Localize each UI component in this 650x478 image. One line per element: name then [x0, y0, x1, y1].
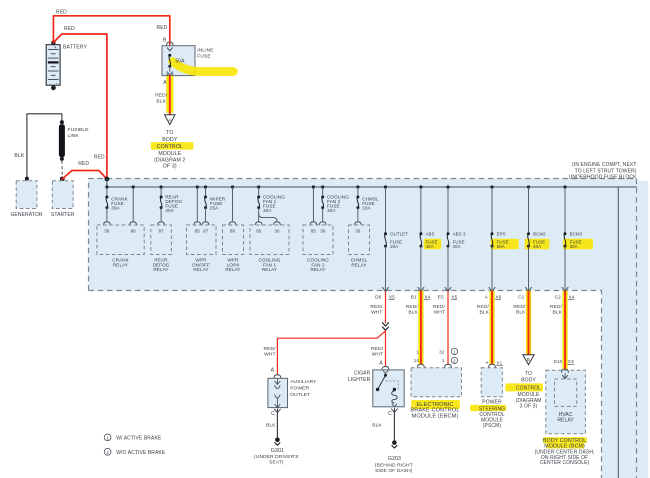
- svg-text:85: 85: [256, 229, 261, 234]
- svg-text:1: 1: [442, 358, 445, 363]
- svg-text:RELAY: RELAY: [557, 417, 574, 423]
- svg-text:WHT: WHT: [264, 352, 275, 358]
- svg-text:1: 1: [416, 349, 419, 354]
- svg-text:2: 2: [453, 358, 456, 363]
- svg-text:SEAT): SEAT): [269, 460, 284, 466]
- svg-text:85: 85: [311, 229, 316, 234]
- svg-text:C: C: [388, 411, 392, 417]
- svg-text:87: 87: [203, 229, 208, 234]
- svg-text:X4: X4: [424, 294, 430, 299]
- svg-text:30: 30: [275, 229, 280, 234]
- svg-text:RED/: RED/: [477, 304, 490, 310]
- svg-text:A: A: [271, 368, 275, 374]
- svg-text:GENERATOR: GENERATOR: [10, 212, 42, 218]
- svg-text:CENTER CONSOLE): CENTER CONSOLE): [540, 460, 590, 466]
- svg-text:D6: D6: [375, 294, 381, 299]
- svg-text:30: 30: [355, 229, 360, 234]
- svg-text:B: B: [527, 357, 530, 362]
- svg-text:WHT: WHT: [372, 352, 383, 358]
- svg-text:BLK: BLK: [552, 309, 562, 315]
- svg-text:87: 87: [159, 229, 164, 234]
- svg-text:30A: 30A: [111, 206, 120, 211]
- svg-text:BCM3: BCM3: [570, 232, 583, 237]
- svg-text:W/ ACTIVE BRAKE: W/ ACTIVE BRAKE: [116, 436, 162, 442]
- svg-text:FUSE: FUSE: [197, 54, 211, 60]
- svg-text:3 OF 3): 3 OF 3): [520, 404, 538, 410]
- svg-text:RELAY: RELAY: [310, 267, 325, 272]
- svg-text:RED: RED: [94, 154, 105, 160]
- svg-text:RELAY: RELAY: [262, 267, 277, 272]
- svg-text:30A: 30A: [570, 244, 578, 249]
- svg-text:RED/: RED/: [513, 304, 526, 310]
- svg-text:OF 3): OF 3): [163, 163, 177, 169]
- svg-text:LINK: LINK: [68, 133, 80, 139]
- svg-text:86: 86: [230, 229, 235, 234]
- svg-text:+: +: [54, 46, 57, 51]
- svg-text:WHT: WHT: [371, 309, 382, 315]
- svg-text:UNDERHOOD FUSE BLOCK: UNDERHOOD FUSE BLOCK: [569, 174, 637, 180]
- svg-text:A: A: [379, 360, 383, 366]
- svg-text:AUXILIARY: AUXILIARY: [290, 379, 317, 385]
- svg-text:OUTLET: OUTLET: [290, 392, 310, 398]
- svg-text:(BEHIND RIGHT: (BEHIND RIGHT: [375, 462, 413, 468]
- svg-text:CIGAR: CIGAR: [354, 370, 371, 376]
- svg-text:TO: TO: [166, 130, 173, 136]
- svg-text:X5: X5: [451, 294, 457, 299]
- svg-text:POWER: POWER: [290, 386, 309, 392]
- svg-text:-: -: [56, 80, 58, 86]
- svg-text:(UNDER DRIVER'S: (UNDER DRIVER'S: [254, 454, 299, 460]
- svg-text:G301: G301: [271, 448, 284, 454]
- svg-text:30A: 30A: [327, 208, 336, 213]
- svg-text:14: 14: [414, 358, 420, 363]
- svg-text:OUTLET: OUTLET: [390, 232, 408, 237]
- svg-text:30: 30: [104, 229, 109, 234]
- svg-text:RELAY: RELAY: [351, 262, 366, 267]
- svg-text:RED: RED: [157, 25, 168, 31]
- svg-text:C: C: [271, 411, 275, 417]
- svg-text:BLK: BLK: [408, 309, 418, 315]
- svg-text:30: 30: [320, 229, 325, 234]
- svg-text:BLK: BLK: [156, 99, 166, 105]
- svg-text:RED/: RED/: [264, 346, 277, 352]
- svg-text:10A: 10A: [362, 206, 371, 211]
- svg-text:B: B: [163, 37, 167, 43]
- svg-text:BLK: BLK: [479, 309, 489, 315]
- svg-text:BODY: BODY: [521, 377, 536, 383]
- svg-text:X5: X5: [389, 294, 395, 299]
- svg-text:BLK: BLK: [372, 423, 382, 429]
- svg-text:40A: 40A: [426, 244, 434, 249]
- svg-text:40A: 40A: [165, 208, 174, 213]
- svg-text:FUSIBLE: FUSIBLE: [68, 127, 90, 133]
- svg-text:RED/: RED/: [406, 304, 419, 310]
- svg-text:E5: E5: [438, 294, 444, 299]
- svg-text:RELAY: RELAY: [193, 267, 208, 272]
- svg-text:(PSCM): (PSCM): [483, 423, 502, 429]
- svg-text:50A: 50A: [175, 59, 185, 65]
- svg-text:WHT: WHT: [434, 309, 445, 315]
- svg-text:CONTROL: CONTROL: [516, 385, 541, 391]
- svg-text:85: 85: [195, 229, 200, 234]
- svg-text:40A: 40A: [533, 244, 541, 249]
- svg-text:X4: X4: [568, 294, 574, 299]
- svg-text:25A: 25A: [210, 206, 219, 211]
- svg-text:BLK: BLK: [14, 153, 24, 159]
- svg-text:MODULE: MODULE: [158, 151, 181, 157]
- svg-text:RED/: RED/: [155, 93, 168, 99]
- svg-text:CONTROL: CONTROL: [157, 144, 183, 150]
- svg-text:20A: 20A: [390, 244, 398, 249]
- svg-text:32: 32: [439, 349, 445, 354]
- svg-text:TO: TO: [525, 371, 532, 377]
- svg-text:BATTERY: BATTERY: [63, 44, 88, 50]
- svg-text:ABS 3: ABS 3: [453, 232, 466, 237]
- svg-text:30A: 30A: [263, 208, 272, 213]
- svg-text:G203: G203: [388, 456, 401, 462]
- svg-text:RELAY: RELAY: [225, 267, 240, 272]
- svg-text:86: 86: [131, 229, 136, 234]
- svg-text:POWER: POWER: [482, 399, 502, 405]
- svg-text:RED/: RED/: [433, 304, 446, 310]
- svg-text:1: 1: [453, 349, 456, 354]
- svg-text:RED/: RED/: [550, 304, 563, 310]
- svg-text:B1: B1: [411, 294, 417, 299]
- svg-text:X3: X3: [568, 359, 574, 364]
- svg-text:MODULE (EBCM): MODULE (EBCM): [412, 413, 459, 419]
- svg-text:(IN ENGINE COMPT, NEXT: (IN ENGINE COMPT, NEXT: [572, 162, 636, 168]
- svg-text:RED: RED: [56, 10, 67, 16]
- svg-text:INLINE: INLINE: [197, 48, 214, 54]
- svg-text:20A: 20A: [453, 244, 461, 249]
- svg-text:D10: D10: [553, 359, 562, 364]
- svg-text:EPS: EPS: [497, 232, 506, 237]
- svg-text:RED: RED: [64, 26, 75, 32]
- svg-text:RELAY: RELAY: [153, 267, 168, 272]
- svg-text:STARTER: STARTER: [51, 212, 75, 218]
- svg-text:+: +: [485, 360, 488, 366]
- svg-text:X1: X1: [496, 360, 502, 365]
- svg-text:LIGHTER: LIGHTER: [348, 377, 371, 383]
- svg-text:BLK: BLK: [516, 309, 526, 315]
- svg-text:RED/: RED/: [371, 346, 384, 352]
- svg-text:RELAY: RELAY: [113, 262, 128, 267]
- svg-text:RED/: RED/: [370, 304, 383, 310]
- svg-text:W/O ACTIVE BRAKE: W/O ACTIVE BRAKE: [116, 450, 166, 456]
- svg-text:60A: 60A: [497, 244, 505, 249]
- svg-text:BCM2: BCM2: [533, 232, 546, 237]
- svg-text:C1: C1: [518, 294, 524, 299]
- svg-text:SIDE OF DASH): SIDE OF DASH): [375, 468, 413, 474]
- svg-text:C2: C2: [555, 294, 561, 299]
- svg-text:ABS: ABS: [426, 232, 435, 237]
- svg-text:BLK: BLK: [266, 423, 276, 429]
- svg-text:RED: RED: [78, 161, 89, 167]
- svg-text:X6: X6: [495, 294, 501, 299]
